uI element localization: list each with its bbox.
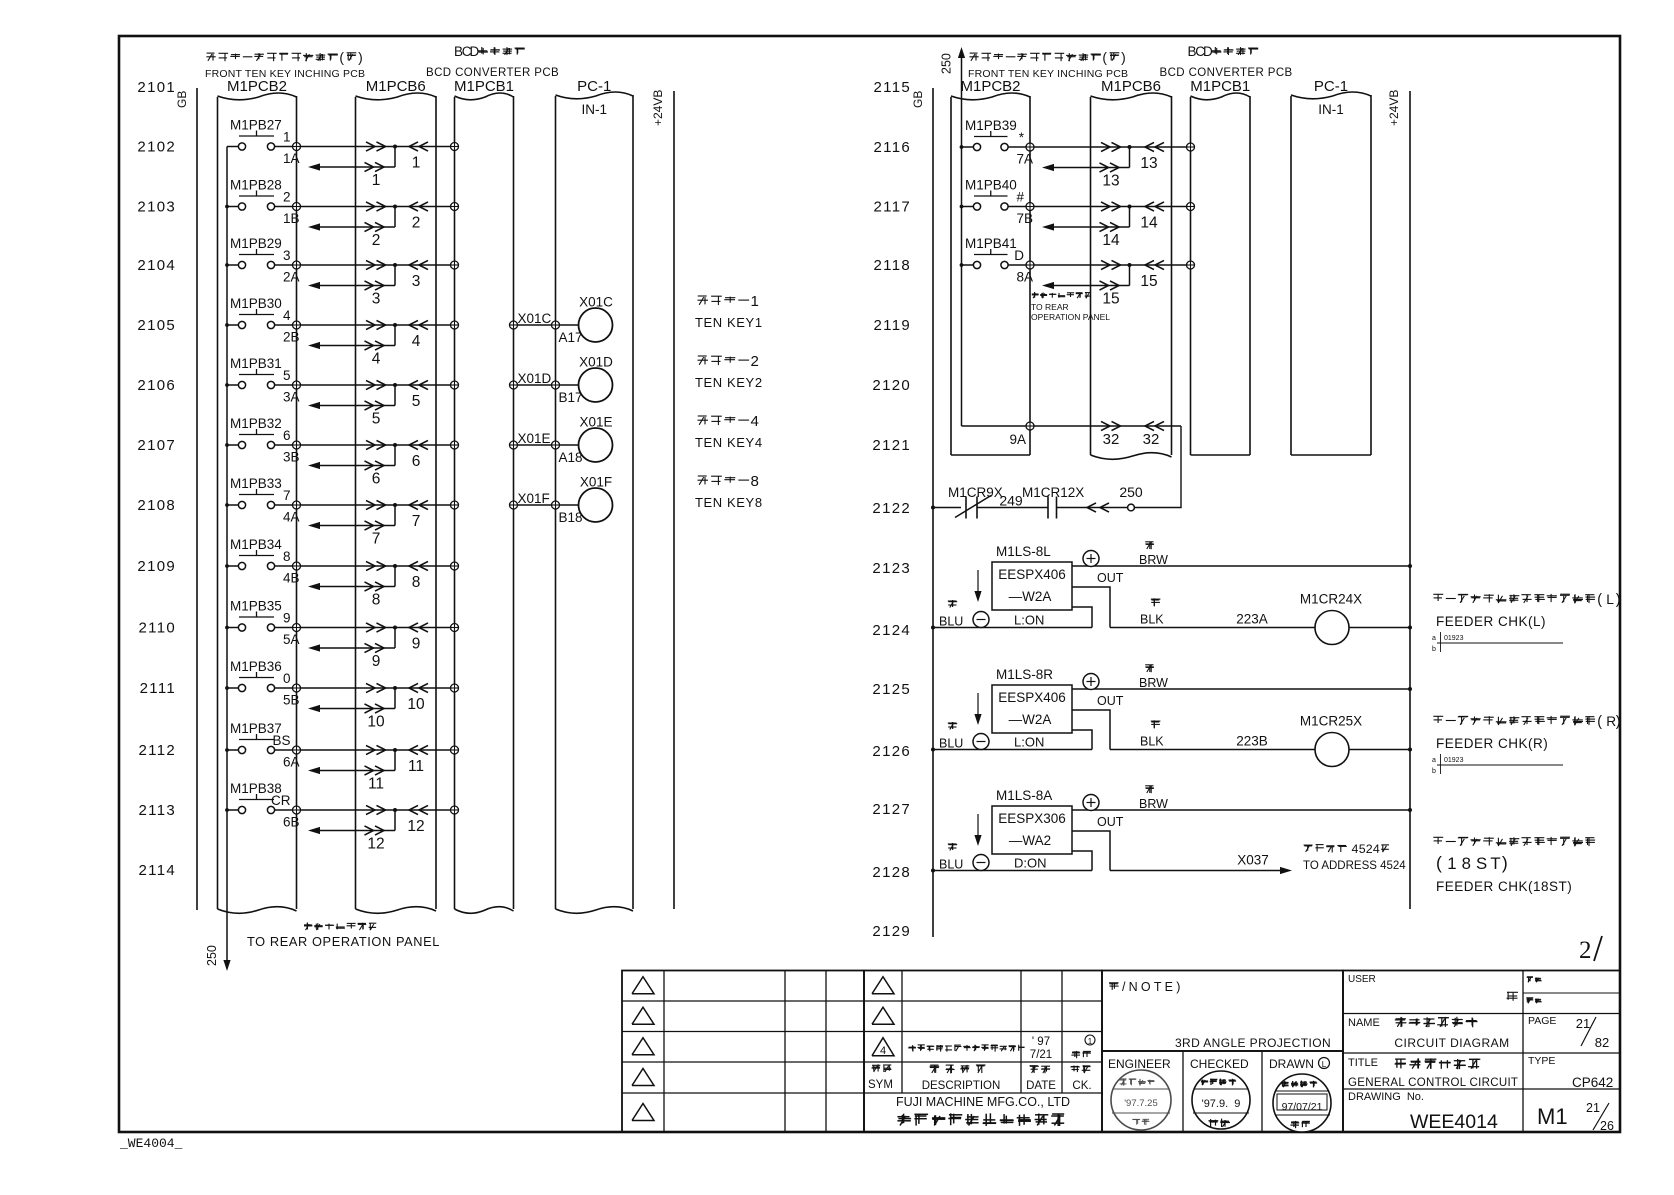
header label FRONT TEN KEY INCHING PCB xyxy=(205,50,365,80)
svg-text:D: D xyxy=(470,44,480,59)
svg-text:M1PB31: M1PB31 xyxy=(230,356,282,371)
field DRAWING No WEE4014 xyxy=(1348,1091,1498,1133)
svg-text:DATE: DATE xyxy=(1026,1080,1056,1092)
chevron arrows into M1PCB6 xyxy=(366,745,386,754)
svg-text:X01E: X01E xyxy=(518,431,551,446)
svg-text:TITLE: TITLE xyxy=(1348,1057,1378,1069)
terminal 14 on M1PCB1 edge xyxy=(1187,203,1195,211)
svg-text:1: 1 xyxy=(412,155,421,172)
svg-text:OPERATION PANEL: OPERATION PANEL xyxy=(1031,312,1110,322)
board M1PCB6 (right) outline xyxy=(1091,93,1172,459)
svg-text:12: 12 xyxy=(367,836,384,853)
svg-text:): ) xyxy=(1502,853,1508,873)
chevron arrows from M1PCB1 xyxy=(409,805,428,814)
wire M1PB33 to terminal 7 xyxy=(275,504,293,506)
svg-text:14: 14 xyxy=(1140,215,1158,232)
svg-text:M1LS-8L: M1LS-8L xyxy=(996,544,1051,559)
svg-text:250: 250 xyxy=(1119,484,1143,500)
wire terminal # to M1PCB1 pin 14 xyxy=(1034,206,1187,208)
wire OUT to relay coil M1CR25X xyxy=(1110,749,1315,751)
wire terminal 2 to M1PCB1 pin 2 xyxy=(301,206,451,208)
svg-text:32: 32 xyxy=(1103,431,1120,448)
terminal 12 on M1PCB1 edge xyxy=(451,806,459,814)
wire BLU GB to M1LS-8A xyxy=(933,870,1092,872)
svg-text:X01E: X01E xyxy=(579,415,612,430)
pushbutton M1PB33 xyxy=(230,476,282,509)
chevron arrows from M1PCB1 xyxy=(409,440,428,449)
svg-text:X01F: X01F xyxy=(580,475,612,490)
revision triangle M1 xyxy=(872,977,894,994)
wire BLU GB to M1LS-8L xyxy=(933,627,1092,629)
pushbutton M1PB28 xyxy=(230,178,282,211)
svg-text:EESPX306: EESPX306 xyxy=(998,811,1066,826)
junction GB row xyxy=(931,626,935,630)
wire terminal 8 to M1PCB1 pin 8 xyxy=(301,565,451,567)
svg-text:ENGINEER: ENGINEER xyxy=(1108,1057,1171,1071)
svg-text:D:ON: D:ON xyxy=(1014,856,1047,871)
chevron arrows from M1PCB1 xyxy=(409,142,428,151)
svg-text:1: 1 xyxy=(283,130,291,145)
chevron arrows into M1PCB6 xyxy=(1101,142,1121,151)
svg-text:S: S xyxy=(1476,854,1487,873)
junction GB row 2122 xyxy=(931,506,935,510)
svg-text:7A: 7A xyxy=(1016,152,1033,167)
down arrow at M1LS-8A xyxy=(974,814,981,846)
svg-text:97/07/21: 97/07/21 xyxy=(1282,1101,1323,1113)
relay coil X01D xyxy=(579,355,614,403)
svg-text:_WE4004_: _WE4004_ xyxy=(119,1136,183,1151)
svg-text:): ) xyxy=(1616,714,1621,730)
svg-text:IN-1: IN-1 xyxy=(581,102,607,117)
revision header CK xyxy=(1070,1065,1091,1092)
svg-text:4B: 4B xyxy=(283,571,300,586)
relay coil X01F xyxy=(579,475,613,523)
title block revision table (middle) xyxy=(864,971,1102,1133)
svg-text:3: 3 xyxy=(283,248,291,263)
pushbutton M1PB41 xyxy=(965,236,1017,269)
wire terminal 6 to M1PCB1 pin 6 xyxy=(301,444,451,446)
wire bus to M1PB32 xyxy=(227,444,238,446)
annotation TEN KEY2 xyxy=(695,353,763,390)
junction node row BS xyxy=(393,748,397,752)
svg-text:GENERAL CONTROL CIRCUIT: GENERAL CONTROL CIRCUIT xyxy=(1348,1077,1518,1089)
pushbutton M1PB27 xyxy=(230,118,282,151)
wire coil M1CR24X to +24VB rail xyxy=(1349,627,1410,629)
chevron arrows into M1PCB6 xyxy=(366,440,386,449)
junction node row 3 xyxy=(393,263,397,267)
svg-text:2: 2 xyxy=(751,353,759,370)
chevron arrows from M1PCB1 xyxy=(409,202,428,211)
svg-text:TO ADDRESS 4524: TO ADDRESS 4524 xyxy=(1303,860,1406,872)
svg-text:NAME: NAME xyxy=(1348,1017,1380,1029)
svg-text:249: 249 xyxy=(999,493,1023,509)
svg-text:PC-1: PC-1 xyxy=(1314,78,1348,95)
svg-text:X01C: X01C xyxy=(518,311,552,326)
pushbutton M1PB40 xyxy=(965,178,1017,211)
svg-text:M1PCB2: M1PCB2 xyxy=(960,78,1020,95)
node 250 xyxy=(1119,484,1143,511)
svg-text:X01D: X01D xyxy=(579,355,613,370)
annotation TEN KEY1 xyxy=(695,293,763,330)
wire OUT to address 4524 (arrow) xyxy=(1110,867,1292,874)
junction node row 8 xyxy=(393,564,397,568)
board M1PCB2 outline xyxy=(218,93,297,913)
minus terminal of M1LS-8R xyxy=(973,734,989,750)
wire terminal * to M1PCB1 pin 13 xyxy=(1034,146,1187,148)
svg-text:IN-1: IN-1 xyxy=(1318,102,1344,117)
field NAME CIRCUIT DIAGRAM xyxy=(1348,1017,1510,1050)
svg-text:b: b xyxy=(1432,768,1436,775)
return wire 2A xyxy=(308,265,395,290)
svg-text:11: 11 xyxy=(408,758,424,775)
svg-text:FEEDER CHK(18ST): FEEDER CHK(18ST) xyxy=(1436,879,1572,894)
chevron arrows into M1PCB6 xyxy=(366,500,386,509)
svg-text:M1PB36: M1PB36 xyxy=(230,659,282,674)
svg-text:6: 6 xyxy=(283,428,291,443)
svg-text:X01C: X01C xyxy=(579,295,613,310)
svg-text:2: 2 xyxy=(283,190,291,205)
terminal CR on M1PCB2 edge xyxy=(293,806,301,814)
field PAGE 21/82 xyxy=(1528,1015,1609,1050)
svg-text:32: 32 xyxy=(1143,431,1160,448)
svg-text:2111: 2111 xyxy=(140,680,176,697)
svg-text:DRAWING No.: DRAWING No. xyxy=(1348,1091,1424,1103)
terminal 9 on M1PCB1 edge xyxy=(451,624,459,632)
wire bus to M1PB29 xyxy=(227,264,238,266)
wire terminal 5 to M1PCB1 pin 5 xyxy=(301,384,451,386)
pushbutton M1PB34 xyxy=(230,537,282,570)
svg-text:8: 8 xyxy=(1462,854,1471,873)
chevron arrows from M1PCB1 xyxy=(409,745,428,754)
svg-text:15: 15 xyxy=(1140,273,1157,290)
svg-text:): ) xyxy=(358,50,363,65)
terminal 3 on M1PCB2 edge xyxy=(293,261,301,269)
svg-text:6: 6 xyxy=(372,471,381,488)
return wire 4A xyxy=(308,505,395,530)
wire BRW M1LS-8L to +24VB xyxy=(1072,565,1410,567)
board M1PCB1 (right) outline xyxy=(1191,93,1251,455)
down arrow at M1LS-8R xyxy=(974,693,981,725)
field USER xyxy=(1348,974,1518,1001)
bus GB (0V rail) xyxy=(911,88,933,937)
svg-text:M1PB29: M1PB29 xyxy=(230,236,282,251)
svg-text:' 97: ' 97 xyxy=(1032,1036,1050,1048)
chevron arrows from M1PCB1 xyxy=(1145,142,1164,151)
wire BRW M1LS-8A to +24VB xyxy=(1072,809,1410,811)
terminal 13 on M1PCB1 edge xyxy=(1187,143,1195,151)
return wire 2B xyxy=(308,325,395,350)
wire sensor bottom to BLU line xyxy=(1072,851,1092,871)
svg-text:5A: 5A xyxy=(283,632,300,647)
svg-text:T: T xyxy=(1490,854,1500,873)
svg-text:2126: 2126 xyxy=(872,743,911,760)
svg-text:4: 4 xyxy=(751,413,759,430)
svg-text:TEN KEY4: TEN KEY4 xyxy=(695,435,763,450)
svg-text:L:ON: L:ON xyxy=(1014,735,1044,750)
wire OUT of M1LS-8R xyxy=(1072,694,1124,750)
svg-text:4: 4 xyxy=(880,1045,886,1057)
terminal 5 on M1PCB2 edge xyxy=(293,381,301,389)
wire PC-1 edge to relay coil X01C xyxy=(560,324,580,326)
return wire 1A xyxy=(308,147,395,172)
svg-text:5: 5 xyxy=(283,368,291,383)
svg-text:BLK: BLK xyxy=(1140,735,1164,749)
svg-text:2121: 2121 xyxy=(872,437,911,454)
svg-text:12: 12 xyxy=(407,818,424,835)
svg-text:2: 2 xyxy=(372,232,381,249)
terminal X01D on PC-1 edge xyxy=(552,381,560,389)
approval table header ENGINEER CHECKED DRAWN xyxy=(1102,1051,1343,1132)
terminal 9A on M1PCB2 edge xyxy=(1026,422,1034,430)
reference mark a/b 01923 (L) xyxy=(1432,632,1563,653)
svg-text:10: 10 xyxy=(407,696,425,713)
chevron arrows from M1PCB1 xyxy=(409,380,428,389)
wire M1PB37 to terminal BS xyxy=(275,749,293,751)
header label FRONT TEN KEY INCHING PCB xyxy=(968,50,1128,80)
chevron arrows from M1PCB1 xyxy=(409,260,428,269)
wire bus to M1PB37 xyxy=(227,749,238,751)
wire bus to M1PB40 xyxy=(962,206,974,208)
svg-text:4A: 4A xyxy=(283,510,300,525)
svg-text:FEEDER CHK(L): FEEDER CHK(L) xyxy=(1436,614,1546,629)
svg-text:BLU: BLU xyxy=(939,737,963,751)
board M1PCB1 outline xyxy=(455,93,514,913)
wire M1PB29 to terminal 3 xyxy=(275,264,293,266)
svg-text:DESCRIPTION: DESCRIPTION xyxy=(922,1080,1001,1092)
svg-text:2118: 2118 xyxy=(874,257,911,274)
stamp CHECKED xyxy=(1192,1071,1250,1129)
wire bus to M1PB31 xyxy=(227,384,238,386)
svg-text:250: 250 xyxy=(205,945,219,966)
wire M1PB34 to terminal 8 xyxy=(275,565,293,567)
svg-text:4: 4 xyxy=(1373,842,1380,856)
return wire 3B xyxy=(308,445,395,470)
svg-text:4: 4 xyxy=(372,351,381,368)
svg-text:7: 7 xyxy=(372,531,381,548)
svg-text:1: 1 xyxy=(372,172,381,189)
wire 250 to rear operation panel (up arrow) xyxy=(940,47,966,74)
svg-text:3: 3 xyxy=(372,291,381,308)
junction GB row xyxy=(931,869,935,873)
svg-text:M1PB27: M1PB27 xyxy=(230,118,282,133)
svg-text:BRW: BRW xyxy=(1139,553,1168,567)
terminal * on M1PCB2 edge xyxy=(1026,143,1034,151)
svg-text:1: 1 xyxy=(1447,854,1456,873)
svg-text:2116: 2116 xyxy=(874,139,911,156)
svg-text:+24VB: +24VB xyxy=(651,90,665,126)
return wire 8A xyxy=(1042,265,1130,290)
svg-text:1: 1 xyxy=(751,293,759,310)
wire terminal 1 to M1PCB1 pin 1 xyxy=(301,146,451,148)
svg-text:2101: 2101 xyxy=(137,79,176,96)
wire bus to M1PB35 xyxy=(227,627,238,629)
svg-text:1B: 1B xyxy=(283,211,300,226)
svg-text:7B: 7B xyxy=(1016,211,1033,226)
svg-text:26: 26 xyxy=(1600,1119,1614,1133)
title block revision table (left) xyxy=(622,971,864,1133)
bus GB (0V rail) xyxy=(175,88,197,910)
pushbutton M1PB39 xyxy=(965,118,1017,151)
svg-text:9: 9 xyxy=(412,636,421,653)
terminal 4 on M1PCB2 edge xyxy=(293,321,301,329)
svg-text:8: 8 xyxy=(372,592,381,609)
svg-text:21: 21 xyxy=(1576,1016,1590,1031)
chevrons row 9A xyxy=(1101,421,1164,430)
board PC-1 (right) outline xyxy=(1291,92,1371,455)
return wire 1B xyxy=(308,207,395,232)
wire BLU GB to M1LS-8R xyxy=(933,749,1092,751)
terminal 7 on M1PCB2 edge xyxy=(293,501,301,509)
wire colour label BLK xyxy=(1140,598,1164,626)
wire colour label BRW xyxy=(1139,786,1168,812)
junction node row D xyxy=(1128,263,1132,267)
svg-text:#: # xyxy=(1016,190,1024,205)
svg-text:8: 8 xyxy=(412,574,421,591)
svg-text:OUT: OUT xyxy=(1097,571,1124,585)
svg-text:A18: A18 xyxy=(559,450,583,465)
svg-text:X037: X037 xyxy=(1237,853,1269,868)
return wire 3A xyxy=(308,385,395,410)
board M1PCB2 (right) outline xyxy=(951,93,1030,455)
svg-text:TYPE: TYPE xyxy=(1528,1055,1555,1067)
wire terminal CR to M1PCB1 pin 12 xyxy=(301,809,451,811)
svg-text:/NOTE): /NOTE) xyxy=(1122,980,1184,994)
wire colour label BRW xyxy=(1139,665,1168,691)
svg-text:3RD ANGLE PROJECTION: 3RD ANGLE PROJECTION xyxy=(1175,1036,1331,1050)
wire terminal D to M1PCB1 pin 15 xyxy=(1034,264,1187,266)
wire M1PB32 to terminal 6 xyxy=(275,444,293,446)
wire colour label BLU xyxy=(939,722,963,751)
svg-text:B18: B18 xyxy=(559,510,583,525)
wire terminal 3 to M1PCB1 pin 3 xyxy=(301,264,451,266)
svg-text:14: 14 xyxy=(1102,232,1120,249)
junction node row 5 xyxy=(393,383,397,387)
pushbutton M1PB29 xyxy=(230,236,282,269)
wire M1PB40 to terminal # xyxy=(1008,206,1026,208)
relay coil M1CR24X xyxy=(1300,592,1362,645)
wire M1PB36 to terminal 0 xyxy=(275,687,293,689)
return wire 6B xyxy=(308,810,395,835)
photo sensor M1LS-8L xyxy=(992,544,1072,610)
junction node row 4 xyxy=(393,323,397,327)
svg-text:BLU: BLU xyxy=(939,858,963,872)
svg-text:USER: USER xyxy=(1348,974,1376,985)
svg-text:X01D: X01D xyxy=(518,371,552,386)
svg-text:FEEDER CHK(R): FEEDER CHK(R) xyxy=(1436,736,1548,751)
svg-text:2114: 2114 xyxy=(139,862,176,879)
junction node row * xyxy=(1128,145,1132,149)
chevron arrows into M1PCB6 xyxy=(366,320,386,329)
svg-text:D: D xyxy=(1203,44,1213,59)
terminal 5 on M1PCB1 edge xyxy=(451,381,459,389)
svg-text:BS: BS xyxy=(272,733,290,748)
svg-text:M1LS-8A: M1LS-8A xyxy=(996,788,1052,803)
svg-text:M1PB33: M1PB33 xyxy=(230,476,282,491)
svg-text:2117: 2117 xyxy=(874,199,911,216)
chevron arrows into M1PCB6 xyxy=(366,260,386,269)
svg-text:*: * xyxy=(1019,130,1025,145)
svg-text:b: b xyxy=(1432,646,1436,653)
wire X01F M1PCB1 to PC-1 xyxy=(518,504,552,506)
svg-text:11: 11 xyxy=(368,776,384,793)
svg-text:4: 4 xyxy=(1352,842,1359,856)
svg-text:2110: 2110 xyxy=(139,620,176,637)
pushbutton M1PB31 xyxy=(230,356,282,389)
junction node row 7 xyxy=(393,503,397,507)
plus terminal of M1LS-8R xyxy=(1083,674,1099,690)
chevron arrows from M1PCB1 xyxy=(1145,260,1164,269)
svg-text:(: ( xyxy=(1597,714,1602,730)
wire M1PB27 to terminal 1 xyxy=(275,146,293,148)
wire M1CR12X to node 250 xyxy=(1057,507,1129,509)
annotation FEEDER CHK(18ST) xyxy=(1433,837,1595,894)
svg-text:TEN KEY8: TEN KEY8 xyxy=(695,495,763,510)
chevron arrows from M1PCB1 xyxy=(409,683,428,692)
svg-text:1A: 1A xyxy=(283,151,300,166)
svg-text:OUT: OUT xyxy=(1097,815,1124,829)
wire PC-1 edge to relay coil X01F xyxy=(560,504,580,506)
field TYPE CP642 xyxy=(1528,1055,1613,1090)
chevron arrows from M1PCB1 xyxy=(409,623,428,632)
minus terminal of M1LS-8A xyxy=(973,855,989,871)
chevron arrows into M1PCB6 xyxy=(366,380,386,389)
pushbutton M1PB37 xyxy=(230,721,282,754)
wire terminal 7 to M1PCB1 pin 7 xyxy=(301,504,451,506)
svg-text:—WA2: —WA2 xyxy=(1009,833,1051,848)
svg-text:2120: 2120 xyxy=(872,377,911,394)
svg-text:BRW: BRW xyxy=(1139,797,1168,811)
wire bus to M1PB36 xyxy=(227,687,238,689)
svg-text:WEE4014: WEE4014 xyxy=(1410,1111,1498,1133)
terminal X01C on M1PCB1 right edge xyxy=(510,321,518,329)
svg-text:5B: 5B xyxy=(283,693,300,708)
maker name FUJI MACHINE MFG.CO., LTD xyxy=(896,1095,1070,1126)
terminal 15 on M1PCB1 edge xyxy=(1187,261,1195,269)
svg-text:2122: 2122 xyxy=(872,500,911,517)
svg-text:M1PB41: M1PB41 xyxy=(965,236,1017,251)
svg-text:2A: 2A xyxy=(283,270,300,285)
wire bus to M1PB39 xyxy=(962,146,974,148)
junction +24VB row xyxy=(1408,687,1412,691)
svg-text:FUJI MACHINE MFG.CO., LTD: FUJI MACHINE MFG.CO., LTD xyxy=(896,1095,1070,1109)
svg-text:(: ( xyxy=(1597,592,1602,608)
svg-text:SYM: SYM xyxy=(868,1079,893,1091)
revision row 4 date xyxy=(1030,1036,1052,1061)
svg-text:2104: 2104 xyxy=(137,257,176,274)
NC contact M1CR9X xyxy=(948,485,1003,519)
svg-text:GB: GB xyxy=(911,91,925,108)
wire PC-1 edge to relay coil X01D xyxy=(560,384,580,386)
svg-text:2102: 2102 xyxy=(137,139,176,156)
svg-text:(: ( xyxy=(339,50,344,65)
svg-text:M1PCB6: M1PCB6 xyxy=(1101,78,1161,95)
svg-text:2106: 2106 xyxy=(137,377,176,394)
revision triangle L2 xyxy=(632,1007,654,1024)
svg-text:223A: 223A xyxy=(1236,612,1268,627)
photo sensor M1LS-8A xyxy=(992,788,1072,854)
wire X01D M1PCB1 to PC-1 xyxy=(518,384,552,386)
svg-text:L:ON: L:ON xyxy=(1014,613,1044,628)
svg-text:M1PB32: M1PB32 xyxy=(230,416,282,431)
wire PC-1 edge to relay coil X01E xyxy=(560,444,580,446)
svg-text:2123: 2123 xyxy=(872,560,911,577)
annotation FEEDER CHK(L) xyxy=(1433,592,1620,629)
wire terminal 9 to M1PCB1 pin 9 xyxy=(301,627,451,629)
pushbutton M1PB32 xyxy=(230,416,282,449)
svg-text:5: 5 xyxy=(372,411,381,428)
wire M1PB28 to terminal 2 xyxy=(275,206,293,208)
svg-text:BRW: BRW xyxy=(1139,676,1168,690)
